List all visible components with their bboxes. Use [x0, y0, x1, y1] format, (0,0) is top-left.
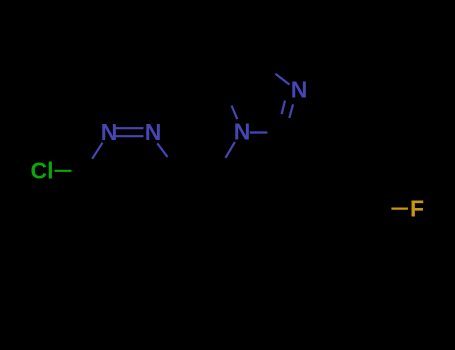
- svg-text:N: N: [291, 77, 308, 103]
- bond N1'-C2' half (blue): [250, 131, 268, 133]
- bond N3'=C2' double half, outer line: [282, 101, 285, 115]
- svg-text:F: F: [410, 195, 424, 221]
- bond N2-C6 half (blue): [157, 143, 167, 157]
- bond N1=N2 double, upper line: [115, 127, 143, 129]
- bond Cl-C3 half (green): [55, 170, 72, 172]
- svg-text:N: N: [145, 119, 162, 145]
- svg-text:N: N: [234, 119, 251, 145]
- bond F-phenyl half (gold): [391, 208, 408, 210]
- svg-text:Cl: Cl: [31, 157, 54, 183]
- svg-text:N: N: [101, 119, 118, 145]
- bond N3'=C2' double half, inner line: [289, 104, 293, 118]
- bond N1=N2 double, lower line: [115, 135, 143, 137]
- bond N1'-CH2 half (blue): [226, 142, 235, 158]
- bond C5'-N1' half (blue): [232, 106, 238, 120]
- bond C4'-N3' half (blue): [275, 74, 289, 85]
- bond N1-C3 half (blue): [92, 143, 102, 159]
